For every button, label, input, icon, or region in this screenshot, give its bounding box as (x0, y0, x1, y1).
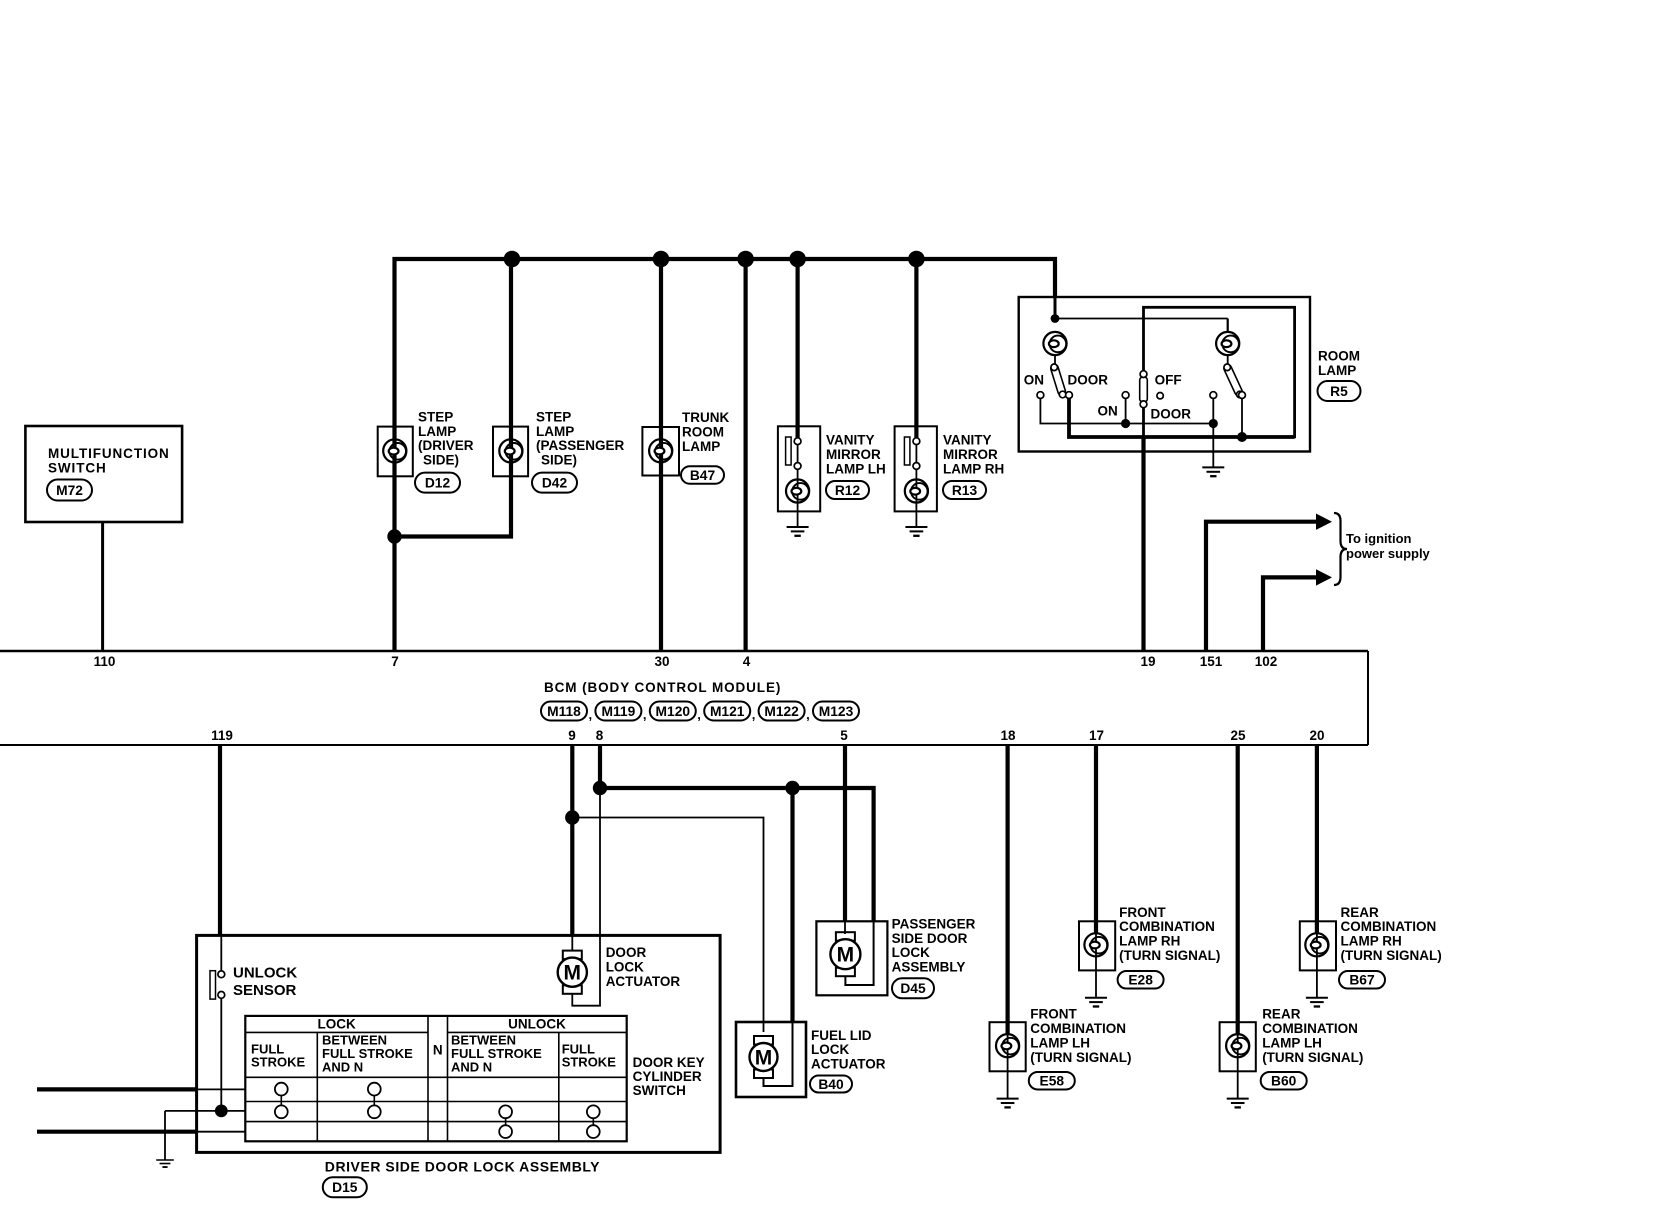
svg-text:COMBINATION: COMBINATION (1030, 1021, 1126, 1036)
svg-text:REAR: REAR (1341, 905, 1380, 920)
svg-text:LAMP LH: LAMP LH (1262, 1035, 1322, 1050)
svg-text:4: 4 (743, 654, 751, 669)
svg-text:SIDE DOOR: SIDE DOOR (892, 931, 968, 946)
svg-text:UNLOCK: UNLOCK (508, 1017, 566, 1032)
svg-text:DOOR KEY: DOOR KEY (633, 1055, 705, 1070)
svg-text:PASSENGER: PASSENGER (892, 916, 976, 931)
svg-text:B60: B60 (1271, 1074, 1297, 1089)
svg-text:N: N (433, 1043, 443, 1058)
svg-text:LAMP LH: LAMP LH (826, 461, 886, 476)
svg-text:M120: M120 (656, 704, 691, 719)
svg-text:FRONT: FRONT (1119, 905, 1166, 920)
svg-text:8: 8 (596, 728, 604, 743)
svg-text:SIDE): SIDE) (541, 453, 577, 468)
svg-text:19: 19 (1140, 654, 1155, 669)
svg-text:B47: B47 (690, 468, 716, 483)
svg-text:M121: M121 (710, 704, 745, 719)
svg-text:D15: D15 (332, 1180, 358, 1195)
svg-text:LAMP RH: LAMP RH (1119, 934, 1180, 949)
svg-text:BCM (BODY CONTROL MODULE): BCM (BODY CONTROL MODULE) (544, 680, 781, 695)
svg-text:R5: R5 (1330, 384, 1348, 399)
svg-text:SWITCH: SWITCH (48, 461, 107, 476)
svg-text:(TURN SIGNAL): (TURN SIGNAL) (1119, 948, 1220, 963)
svg-text:20: 20 (1309, 728, 1324, 743)
svg-text:R13: R13 (952, 483, 978, 498)
svg-text:B67: B67 (1349, 973, 1375, 988)
svg-text:17: 17 (1089, 728, 1104, 743)
svg-text:COMBINATION: COMBINATION (1262, 1021, 1358, 1036)
svg-text:MIRROR: MIRROR (826, 447, 881, 462)
svg-text:REAR: REAR (1262, 1007, 1301, 1022)
svg-text:TRUNK: TRUNK (682, 410, 729, 425)
svg-text:CYLINDER: CYLINDER (633, 1069, 702, 1084)
svg-text:LAMP LH: LAMP LH (1030, 1035, 1090, 1050)
svg-text:SWITCH: SWITCH (633, 1083, 686, 1098)
svg-text:MIRROR: MIRROR (943, 447, 998, 462)
svg-text:M: M (837, 944, 855, 967)
svg-text:ROOM: ROOM (1318, 349, 1360, 364)
svg-text:25: 25 (1230, 728, 1246, 743)
svg-text:VANITY: VANITY (943, 433, 992, 448)
svg-text:ROOM: ROOM (682, 425, 724, 440)
svg-text:ASSEMBLY: ASSEMBLY (892, 960, 966, 975)
svg-text:5: 5 (840, 728, 848, 743)
svg-text:110: 110 (94, 654, 116, 669)
svg-text:,: , (806, 707, 810, 722)
svg-text:To ignition: To ignition (1346, 531, 1412, 546)
svg-text:B40: B40 (818, 1077, 844, 1092)
svg-text:M122: M122 (764, 704, 799, 719)
svg-text:LOCK: LOCK (606, 960, 644, 975)
svg-text:DOOR: DOOR (1151, 406, 1192, 421)
svg-text:18: 18 (1000, 728, 1016, 743)
svg-text:7: 7 (391, 654, 399, 669)
svg-text:LAMP: LAMP (418, 424, 456, 439)
svg-text:102: 102 (1255, 654, 1278, 669)
svg-text:COMBINATION: COMBINATION (1119, 919, 1215, 934)
svg-text:(TURN SIGNAL): (TURN SIGNAL) (1262, 1050, 1363, 1065)
svg-text:STEP: STEP (418, 409, 453, 424)
svg-text:ACTUATOR: ACTUATOR (606, 974, 681, 989)
svg-text:ON: ON (1024, 372, 1044, 387)
svg-text:9: 9 (568, 728, 576, 743)
svg-text:DOOR: DOOR (606, 945, 647, 960)
svg-text:LAMP RH: LAMP RH (943, 461, 1004, 476)
svg-text:(TURN SIGNAL): (TURN SIGNAL) (1030, 1050, 1131, 1065)
svg-text:STROKE: STROKE (562, 1055, 617, 1070)
svg-text:LOCK: LOCK (811, 1042, 849, 1057)
svg-text:COMBINATION: COMBINATION (1341, 919, 1437, 934)
svg-text:,: , (697, 707, 701, 722)
svg-text:D45: D45 (900, 981, 926, 996)
svg-text:M: M (755, 1047, 773, 1070)
svg-text:LOCK: LOCK (892, 945, 930, 960)
svg-text:DOOR: DOOR (1068, 372, 1109, 387)
svg-text:E58: E58 (1040, 1074, 1065, 1089)
svg-text:power supply: power supply (1346, 546, 1431, 561)
svg-text:OFF: OFF (1155, 372, 1182, 387)
svg-text:(PASSENGER: (PASSENGER (536, 438, 625, 453)
svg-text:119: 119 (211, 728, 233, 743)
svg-text:VANITY: VANITY (826, 433, 875, 448)
svg-text:SIDE): SIDE) (423, 453, 459, 468)
svg-text:M123: M123 (819, 704, 854, 719)
svg-text:AND N: AND N (322, 1059, 363, 1074)
svg-text:STEP: STEP (536, 409, 571, 424)
svg-text:SENSOR: SENSOR (233, 982, 297, 999)
svg-text:M72: M72 (56, 483, 83, 498)
svg-text:FUEL LID: FUEL LID (811, 1028, 872, 1043)
svg-text:R12: R12 (835, 483, 861, 498)
svg-text:ON: ON (1098, 403, 1118, 418)
svg-text:MULTIFUNCTION: MULTIFUNCTION (48, 446, 170, 461)
svg-text:D12: D12 (425, 475, 451, 490)
svg-text:M: M (564, 962, 582, 985)
svg-text:LAMP: LAMP (682, 439, 720, 454)
svg-text:LAMP: LAMP (536, 424, 574, 439)
svg-text:LAMP: LAMP (1318, 363, 1356, 378)
svg-text:E28: E28 (1128, 973, 1153, 988)
svg-text:STROKE: STROKE (251, 1055, 306, 1070)
svg-text:30: 30 (654, 654, 669, 669)
svg-text:151: 151 (1200, 654, 1223, 669)
svg-text:LOCK: LOCK (317, 1017, 355, 1032)
svg-text:FRONT: FRONT (1030, 1007, 1077, 1022)
svg-text:(TURN SIGNAL): (TURN SIGNAL) (1341, 948, 1442, 963)
svg-text:AND N: AND N (451, 1059, 492, 1074)
svg-text:M119: M119 (602, 704, 636, 719)
svg-text:,: , (752, 707, 756, 722)
svg-text:M118: M118 (547, 704, 581, 719)
svg-text:UNLOCK: UNLOCK (233, 964, 297, 981)
svg-text:,: , (589, 707, 593, 722)
svg-text:(DRIVER: (DRIVER (418, 438, 474, 453)
svg-text:LAMP RH: LAMP RH (1341, 934, 1402, 949)
svg-text:DRIVER SIDE DOOR LOCK ASSEMBLY: DRIVER SIDE DOOR LOCK ASSEMBLY (325, 1159, 600, 1175)
svg-text:D42: D42 (542, 475, 568, 490)
svg-text:,: , (643, 707, 647, 722)
svg-text:ACTUATOR: ACTUATOR (811, 1057, 886, 1072)
